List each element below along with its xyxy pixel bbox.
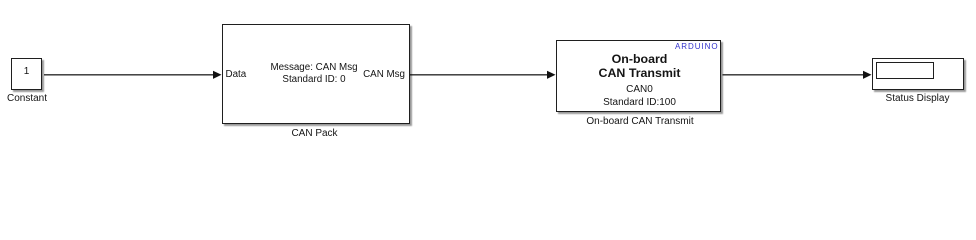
text Standard ID:100 bbox=[560, 98, 720, 108]
text Message: CAN Msg bbox=[224, 63, 404, 73]
arrowhead into CAN Pack Data port bbox=[213, 71, 222, 79]
text CAN Transmit bbox=[560, 67, 720, 79]
block On-board CAN Transmit bbox=[556, 40, 721, 112]
wire CAN Pack to On-board CAN Transmit bbox=[410, 74, 548, 76]
port label Data bbox=[226, 70, 247, 80]
block Status Display bbox=[872, 58, 964, 90]
label On-board CAN Transmit bbox=[560, 117, 720, 127]
tag ARDUINO bbox=[618, 43, 719, 51]
value 1 of Constant bbox=[11, 67, 42, 77]
label Status Display bbox=[868, 94, 968, 104]
arrowhead into On-board CAN Transmit port bbox=[547, 71, 556, 79]
arrowhead into Status Display port bbox=[863, 71, 872, 79]
text Standard ID: 0 bbox=[224, 75, 404, 85]
block Constant bbox=[11, 58, 42, 90]
display field rectangle bbox=[876, 62, 934, 79]
label Constant bbox=[0, 94, 67, 104]
wire Constant to CAN Pack bbox=[44, 74, 214, 76]
wire On-board CAN Transmit to Status Display bbox=[723, 74, 865, 76]
text On-board bbox=[560, 53, 720, 65]
block CAN Pack bbox=[222, 24, 410, 124]
port label CAN Msg bbox=[305, 70, 405, 80]
text CAN0 bbox=[560, 85, 720, 95]
label CAN Pack bbox=[245, 129, 385, 139]
